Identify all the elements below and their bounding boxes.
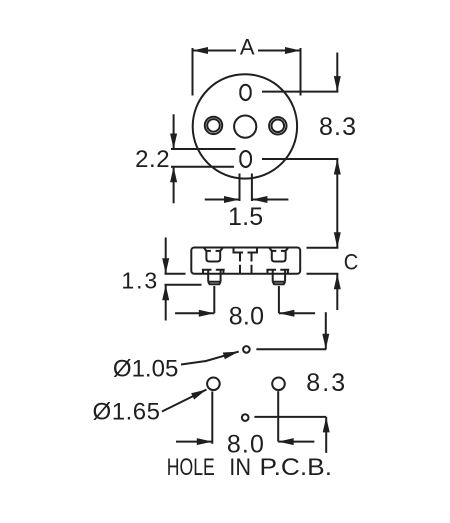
top small hole	[243, 346, 250, 353]
top slot hole	[240, 85, 250, 100]
dim A line left segment	[193, 50, 237, 52]
svg-text:IN: IN	[229, 454, 251, 481]
dim 1.3 upper arrow segment	[165, 238, 167, 274]
dim 8.0 right segment	[279, 312, 315, 314]
right eyelet inner ring	[272, 120, 285, 133]
right pin tube	[273, 270, 285, 282]
dim 1.3 lower arrow segment	[165, 285, 167, 321]
leader 1.05 arrowhead	[223, 352, 239, 360]
dim C lower extension line	[307, 273, 339, 275]
dim 1.3 down arrowhead	[162, 258, 169, 274]
dim C up arrowhead	[334, 274, 341, 290]
dim 2.2 down arrowhead	[170, 134, 177, 150]
dim C down arrowhead	[334, 232, 341, 248]
left large hole	[207, 378, 220, 391]
pcb 8.0 right arrowhead	[197, 438, 213, 445]
dim A left arrowhead	[193, 47, 209, 54]
dim 1.5 left extension line	[239, 174, 241, 202]
dim A line right segment	[258, 50, 301, 52]
left top cup	[204, 248, 223, 262]
bottom slot hole	[240, 151, 251, 167]
right pin flange outer sides	[268, 270, 288, 274]
right large hole	[272, 378, 285, 391]
dim 1.3 lower extension line	[165, 284, 202, 286]
left cup inner lip right	[216, 250, 221, 252]
svg-text:Ø1.05: Ø1.05	[113, 356, 178, 383]
svg-text:1.3: 1.3	[121, 268, 157, 294]
pcb 8.3 lower extension line	[254, 416, 326, 418]
center slot left step	[234, 248, 244, 253]
pcb 8.3 down arrowhead	[322, 334, 329, 350]
dim 8.3 upper arrow segment	[336, 53, 338, 92]
left pin flange bars	[202, 269, 225, 271]
dim C lower arrow segment	[336, 274, 338, 310]
dim 1.5 left arrowhead	[252, 196, 268, 203]
svg-text:8.0: 8.0	[229, 302, 264, 330]
dim 8.0 right arrowhead	[199, 310, 215, 317]
dim 8.0 left segment	[175, 312, 214, 314]
right cup inner lip right	[281, 250, 286, 252]
right cup inner lip left	[272, 250, 277, 252]
dim C upper extension line	[307, 247, 339, 249]
svg-text:HOLE: HOLE	[167, 454, 215, 481]
dim 2.2 upper extension line	[171, 148, 236, 150]
svg-text:1.5: 1.5	[228, 203, 263, 231]
dim 8.3 upper extension line	[262, 91, 338, 93]
bottom small hole	[242, 414, 249, 421]
svg-text:P.C.B.: P.C.B.	[260, 454, 333, 481]
dim 8.3 down arrowhead	[334, 76, 341, 92]
center hidden line left	[239, 253, 241, 274]
right pin tip	[273, 282, 285, 285]
svg-text:C: C	[344, 250, 359, 275]
dim 2.2 lower arrow segment	[173, 167, 175, 204]
svg-text:8.3: 8.3	[319, 113, 356, 141]
dim 8.0 left arrowhead	[279, 310, 295, 317]
dim 2.2 upper arrow segment	[173, 114, 175, 149]
left cup inner lip left	[206, 250, 211, 252]
dim 8.3 / C shared arrow segment	[336, 159, 338, 248]
left pin tip	[208, 282, 220, 285]
dim 1.5 right segment	[252, 199, 289, 201]
dim 8.3 up arrowhead	[334, 159, 341, 175]
left eyelet inner ring	[207, 119, 220, 132]
pcb 8.0 left segment	[176, 441, 212, 443]
dim 1.5 left segment	[205, 199, 240, 201]
dim A right extension line	[300, 48, 302, 96]
center hidden line right	[251, 253, 253, 274]
dim 1.5 right arrowhead	[224, 196, 240, 203]
dim 1.3 up arrowhead	[162, 285, 169, 301]
dim 1.5 right extension line	[251, 174, 253, 202]
leader 1.65 arrowhead	[191, 390, 206, 400]
pcb 8.0 left extension line	[211, 392, 213, 444]
dim 8.0 right extension line	[278, 286, 280, 313]
left pin tube	[208, 270, 220, 282]
svg-text:8.3: 8.3	[306, 369, 345, 397]
center hole	[234, 116, 256, 138]
svg-text:2.2: 2.2	[135, 146, 170, 173]
leader line for 1.05	[181, 352, 239, 365]
pcb 8.0 right extension line	[277, 391, 279, 441]
dim A right arrowhead	[285, 47, 301, 54]
dim 8.3 lower extension line	[262, 158, 338, 160]
svg-text:A: A	[240, 35, 255, 60]
flange outer circle	[193, 74, 297, 178]
dim 2.2 lower extension line	[171, 166, 234, 168]
leader line for 1.65	[162, 390, 207, 412]
center slot right step	[248, 248, 258, 253]
dim 2.2 up arrowhead	[170, 167, 177, 183]
dim 1.3 upper extension line	[165, 273, 186, 275]
pcb 8.3 lower arrow segment	[325, 417, 327, 453]
dim A left extension line	[192, 48, 194, 96]
pcb 8.3 upper arrow segment	[325, 312, 327, 349]
body outline	[191, 248, 300, 274]
right top cup	[269, 248, 288, 262]
pcb 8.3 upper extension line	[256, 348, 326, 350]
svg-text:Ø1.65: Ø1.65	[93, 398, 161, 425]
right pin flange bars	[266, 269, 289, 271]
pcb 8.3 up arrowhead	[323, 417, 330, 433]
pcb 8.0 left arrowhead	[278, 438, 294, 445]
pcb 8.0 right segment	[278, 441, 314, 443]
right eyelet outer ring	[269, 117, 286, 134]
left pin flange outer sides	[203, 270, 223, 274]
left eyelet outer ring	[205, 117, 222, 134]
dim 8.0 left extension line	[213, 286, 215, 313]
